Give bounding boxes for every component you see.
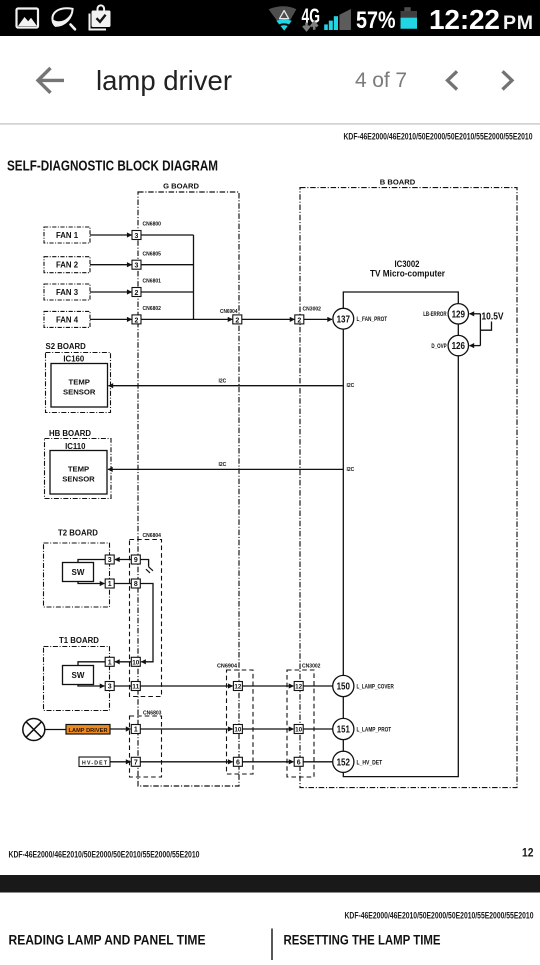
T1 BOARD box: [44, 636, 110, 710]
svg-text:3: 3: [135, 233, 139, 240]
wire CN6904 pin10 to CN3002 pin10: [242, 728, 293, 730]
svg-text:4 of 7: 4 of 7: [355, 69, 407, 92]
svg-text:L_HV_DET: L_HV_DET: [357, 759, 383, 766]
svg-text:126: 126: [452, 341, 466, 352]
svg-text:LAMP DRIVER: LAMP DRIVER: [69, 728, 108, 734]
svg-text:LB-ERROR: LB-ERROR: [423, 311, 447, 318]
svg-text:TEMP: TEMP: [69, 377, 90, 386]
svg-text:SENSOR: SENSOR: [62, 474, 95, 483]
wire CN3002 to node 137: [304, 318, 332, 320]
chevron right: [503, 71, 513, 89]
svg-text:FAN 1: FAN 1: [56, 231, 79, 240]
wire 10.5V feed: [480, 322, 491, 331]
wire fan2 to CN6805: [90, 264, 132, 266]
G BOARD box: [138, 182, 239, 786]
svg-text:IC110: IC110: [65, 442, 86, 451]
clipboard icon: [90, 5, 111, 29]
bus vertical: [193, 235, 195, 319]
svg-text:CN3002: CN3002: [303, 307, 322, 313]
wire HV-DET to CN6803 pin7: [110, 761, 131, 763]
connector CN6800 pin 3: [132, 222, 161, 240]
fan 4 box: [44, 311, 90, 327]
wire SW T1 bottom to pin 3: [78, 685, 104, 687]
connector CN6801 pin 2: [132, 279, 161, 297]
page2 column divider: [271, 929, 272, 961]
svg-text:L_LAMP_COVER: L_LAMP_COVER: [357, 684, 395, 691]
svg-text:10: 10: [234, 727, 242, 734]
wire CN3002 pin12 to node 150: [303, 685, 333, 687]
svg-text:129: 129: [452, 309, 466, 320]
wire CN6904 pin12 to CN3002 pin12: [242, 685, 293, 687]
svg-text:9: 9: [134, 557, 138, 564]
svg-text:CN6800: CN6800: [143, 222, 162, 228]
signal bars: [324, 9, 351, 30]
wire CN6805 to bus: [141, 264, 194, 266]
node 126 D_OVP: [431, 335, 468, 355]
CN6904 group box: [227, 670, 254, 774]
wire fan1 to CN6800: [90, 234, 132, 236]
svg-text:I2C: I2C: [219, 378, 227, 384]
svg-text:CN6904: CN6904: [217, 663, 237, 669]
svg-text:150: 150: [337, 682, 351, 693]
wire 10.5V rail to 126: [470, 345, 481, 347]
fan 3 box: [44, 284, 90, 300]
wire pin9 to ground: [140, 560, 148, 567]
svg-text:10.5V: 10.5V: [482, 312, 504, 323]
wire fan4 to CN6802: [90, 318, 132, 320]
wire pin1 to pin8: [114, 583, 131, 585]
svg-text:CN6801: CN6801: [143, 279, 162, 285]
connector CN6904 pin 12: [233, 682, 242, 691]
connector CN6803 pin 7: [131, 757, 140, 766]
battery icon: [401, 7, 418, 29]
svg-text:CN3002: CN3002: [302, 663, 321, 669]
connector CN6904 pin 10: [233, 725, 242, 734]
HB BOARD box: [45, 429, 112, 499]
svg-text:3: 3: [108, 557, 112, 564]
svg-text:1: 1: [108, 581, 112, 588]
svg-text:D_OVP: D_OVP: [431, 343, 447, 350]
wire 10.5V rail vertical: [479, 314, 481, 346]
svg-text:L_LAMP_PROT: L_LAMP_PROT: [357, 727, 392, 734]
wire CN6800 to bus: [141, 234, 194, 236]
fan 1 box: [44, 227, 90, 243]
svg-text:HB BOARD: HB BOARD: [49, 429, 91, 438]
node 129 LB-ERROR: [423, 304, 468, 324]
connector CN6805 pin 3: [132, 251, 161, 269]
node 150 L_LAMP_COVER: [333, 675, 394, 696]
svg-text:PM: PM: [503, 12, 533, 34]
svg-text:2: 2: [135, 290, 139, 297]
svg-text:READING LAMP AND PANEL TIME: READING LAMP AND PANEL TIME: [9, 933, 206, 948]
svg-text:10: 10: [132, 659, 140, 666]
op IC3002 block outline: [343, 292, 458, 777]
svg-text:RESETTING THE LAMP TIME: RESETTING THE LAMP TIME: [284, 933, 441, 948]
svg-text:7: 7: [134, 759, 138, 766]
HV-DET block: [79, 757, 110, 767]
CN3002 group box: [287, 670, 314, 777]
svg-text:CN6804: CN6804: [143, 533, 162, 539]
CN6803 group box: [130, 716, 162, 777]
wire SW T2 bottom to pin 1: [78, 582, 104, 584]
switch SW T2: [63, 563, 94, 582]
CN6804 group box: [130, 540, 162, 697]
connector T1 pin 3: [105, 682, 114, 691]
wire CN3002 pin10 to node 151: [303, 728, 333, 730]
svg-text:1: 1: [108, 659, 112, 666]
wire CN3002 pin6 to node 152: [303, 761, 333, 763]
svg-text:2: 2: [135, 317, 139, 324]
wire CN6803 pin7 to CN6904 pin6: [140, 761, 232, 763]
4G indicator: [302, 4, 321, 30]
wire pin8 down to T1 pin10: [140, 584, 153, 662]
svg-text:137: 137: [337, 314, 351, 325]
svg-text:CN6904: CN6904: [220, 309, 238, 315]
svg-text:6: 6: [236, 759, 240, 766]
connector T2 pin 3: [105, 555, 114, 564]
HB temp sensor block: [50, 451, 107, 495]
svg-text:3: 3: [108, 684, 112, 691]
node 137 L_FAN_PROT: [333, 308, 387, 329]
connector CN3002 pin 6: [294, 757, 303, 766]
connector CN3002 pin 10: [294, 725, 303, 734]
node 151 L_LAMP_PROT: [333, 718, 392, 739]
connector CN6804 pin 11: [131, 682, 140, 691]
chevron left: [448, 71, 458, 89]
svg-text:SW: SW: [72, 568, 85, 577]
wire I2C HB to micro: [108, 468, 343, 470]
wire lamp driver to CN6803 pin1: [110, 728, 131, 730]
connector CN6904 pin 6: [233, 757, 242, 766]
wire SW T2 top to pin 3: [78, 560, 105, 563]
connector CN6904 pin 2: [220, 309, 242, 324]
svg-text:TEMP: TEMP: [68, 464, 89, 473]
wire fan3 to CN6801: [90, 291, 132, 293]
B BOARD box: [300, 177, 517, 787]
svg-text:T2 BOARD: T2 BOARD: [58, 528, 98, 537]
wire 10.5V rail to 129: [470, 313, 481, 315]
connector CN3002 pin 12: [294, 682, 303, 691]
connector CN6803 pin 1: [131, 725, 140, 734]
fan 2 box: [44, 257, 90, 273]
svg-text:I2C: I2C: [347, 467, 355, 473]
ground: [146, 567, 153, 573]
toolbar: [0, 36, 540, 124]
svg-text:SW: SW: [72, 671, 85, 680]
wire CN6904 to CN3002: [242, 318, 295, 320]
svg-text:57%: 57%: [356, 7, 396, 34]
svg-text:S2 BOARD: S2 BOARD: [46, 342, 87, 351]
svg-text:2: 2: [235, 317, 239, 324]
svg-text:FAN 3: FAN 3: [56, 288, 79, 297]
T2 BOARD box: [44, 528, 110, 607]
svg-text:T1 BOARD: T1 BOARD: [59, 636, 99, 645]
lamp: [23, 719, 45, 741]
wire pin10 to T1 pin1: [115, 661, 131, 663]
wire CN6904 pin6 to CN3002 pin6: [242, 761, 293, 763]
svg-text:8: 8: [134, 581, 138, 588]
svg-text:151: 151: [337, 725, 350, 736]
svg-text:11: 11: [132, 684, 140, 691]
leaf icon: [52, 8, 75, 29]
wire CN6803 pin1 to CN6904 pin10: [140, 728, 232, 730]
svg-text:FAN 2: FAN 2: [56, 261, 79, 270]
svg-text:SELF-DIAGNOSTIC BLOCK DIAGRAM: SELF-DIAGNOSTIC BLOCK DIAGRAM: [7, 159, 218, 175]
connector T2 pin 1: [105, 579, 114, 588]
wire fan bus to CN6904: [141, 318, 232, 320]
svg-text:1: 1: [134, 727, 138, 734]
status bar background: [0, 0, 540, 36]
svg-text:3: 3: [135, 263, 139, 270]
wire T1 pin1 to SW top: [78, 662, 105, 666]
svg-text:12: 12: [522, 847, 534, 859]
svg-text:G BOARD: G BOARD: [163, 182, 199, 191]
svg-text:lamp driver: lamp driver: [96, 65, 232, 96]
wire I2C S2 to micro: [109, 385, 344, 387]
svg-text:I2C: I2C: [219, 462, 227, 468]
wire CN6801 to bus: [141, 291, 194, 293]
lamp driver block: [66, 725, 110, 735]
connector T1 pin 1: [105, 657, 114, 666]
connector CN6804 pin 9: [131, 555, 140, 564]
svg-text:KDF-46E2000/46E2010/50E2000/50: KDF-46E2000/46E2010/50E2000/50E2010/55E2…: [345, 911, 534, 921]
IC3002 label: [370, 259, 445, 278]
wire T1 pin3 to pin11: [114, 685, 131, 687]
svg-text:I2C: I2C: [347, 383, 355, 389]
svg-text:12: 12: [234, 684, 242, 691]
svg-text:IC160: IC160: [63, 354, 84, 363]
connector CN6802 pin 2: [132, 306, 161, 324]
svg-text:L_FAN_PROT: L_FAN_PROT: [357, 316, 388, 323]
wire lamp to lamp driver: [45, 729, 66, 731]
connector CN3002 pin 2: [295, 307, 321, 325]
svg-text:CN6805: CN6805: [143, 251, 162, 257]
connector CN6804 pin 8: [131, 579, 140, 588]
svg-text:152: 152: [337, 758, 351, 769]
svg-text:SENSOR: SENSOR: [63, 387, 96, 396]
svg-text:12: 12: [295, 684, 303, 691]
svg-text:2: 2: [297, 317, 301, 324]
gallery icon: [17, 9, 39, 28]
svg-text:10: 10: [295, 727, 303, 734]
connector CN6804 pin 10: [131, 657, 140, 666]
svg-text:TV Micro-computer: TV Micro-computer: [370, 268, 445, 278]
page gap band: [0, 875, 540, 893]
switch SW T1: [63, 666, 94, 685]
svg-text:KDF-46E2000/46E2010/50E2000/50: KDF-46E2000/46E2010/50E2000/50E2010/55E2…: [344, 131, 533, 141]
svg-text:CN6802: CN6802: [143, 306, 162, 312]
wire pin9 to pin3: [115, 559, 131, 561]
svg-text:FAN 4: FAN 4: [56, 315, 79, 324]
svg-text:KDF-46E2000/46E2010/50E2000/50: KDF-46E2000/46E2010/50E2000/50E2010/55E2…: [9, 849, 200, 859]
S2 BOARD box: [46, 342, 111, 412]
svg-text:6: 6: [297, 759, 301, 766]
back arrow: [38, 68, 64, 93]
wifi icon: [269, 6, 297, 30]
node 152 L_HV_DET: [333, 751, 383, 772]
wire pin11 to CN6904 pin12: [140, 685, 232, 687]
svg-text:B BOARD: B BOARD: [380, 177, 416, 186]
svg-text:12:22: 12:22: [429, 4, 500, 35]
S2 temp sensor block: [51, 364, 108, 408]
